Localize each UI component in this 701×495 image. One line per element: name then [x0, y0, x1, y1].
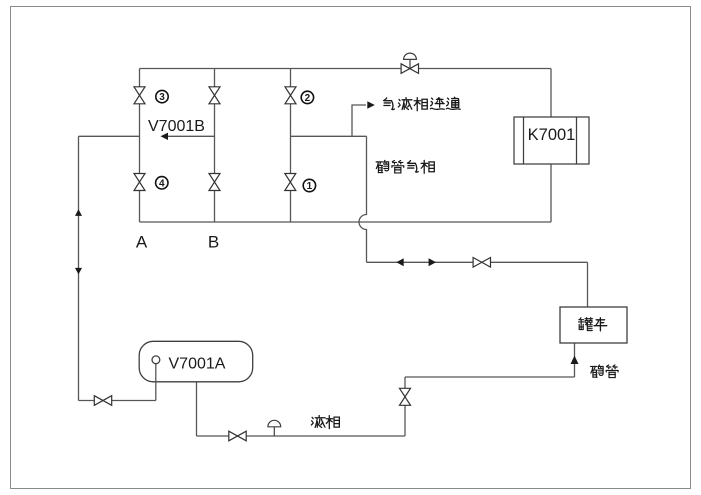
wire branch to gas-liquid arrow	[352, 105, 366, 136]
valve 2 on riser C	[285, 87, 296, 104]
arrow down trunk	[75, 268, 82, 275]
arrow right bidirectional	[429, 258, 436, 266]
svg-text:K7001: K7001	[528, 126, 576, 144]
control valve on top header	[401, 53, 418, 73]
svg-text:2: 2	[305, 93, 311, 104]
circled number 2	[301, 91, 313, 104]
valve on liquid line	[229, 431, 246, 441]
arrow left bidirectional	[396, 258, 403, 266]
svg-text:4: 4	[159, 178, 165, 189]
wire K7001 bottom drop x=551	[550, 164, 552, 222]
circled number 3	[156, 90, 168, 103]
label tank truck (Chinese)	[578, 318, 606, 331]
arrow up trunk	[75, 209, 82, 216]
label liquid phase (Chinese)	[311, 416, 339, 429]
wire trunk x=78.5	[78, 136, 80, 400]
wire liquid line y=435.5	[197, 435, 406, 437]
arrow up crane	[571, 356, 579, 364]
wire trunk bottom y=400.5	[79, 400, 156, 402]
wire riser B x=214.5	[214, 69, 216, 223]
svg-text:V7001B: V7001B	[148, 118, 205, 135]
svg-text:1: 1	[307, 181, 313, 192]
wire V7001A circle drop x=155.8	[155, 364, 157, 401]
valve on riser B top	[209, 87, 220, 104]
svg-text:A: A	[136, 232, 148, 251]
wire riser A x=139.5	[139, 69, 141, 223]
compressor K7001 box	[514, 117, 589, 164]
label gas-liquid connection (Chinese)	[384, 97, 461, 111]
svg-text:V7001A: V7001A	[169, 355, 226, 372]
valve on crane riser	[400, 388, 411, 405]
valve 4 on riser A	[134, 174, 145, 191]
V7001A nozzle circle	[152, 356, 160, 364]
wire hop riser x=366.5 with jump arc	[359, 136, 367, 262]
svg-text:3: 3	[159, 92, 165, 103]
wire valve riser x=405	[404, 377, 406, 436]
wire bidirectional line y=261.5	[367, 261, 588, 263]
wire K7001 top drop x=551	[550, 69, 552, 118]
wire tank top drop x=587.5	[587, 262, 589, 307]
wire top header y=68.5	[140, 68, 552, 70]
valve on riser B bottom	[209, 174, 220, 191]
wire riser C x=290.5	[290, 69, 292, 223]
wire trunk to A y=136.3	[79, 135, 140, 137]
label crane pipe gas phase (Chinese)	[376, 160, 434, 173]
wire bottom header y=222	[140, 221, 552, 223]
arrow right gas-liquid	[367, 101, 375, 108]
wire V7001B arrow line	[167, 135, 215, 137]
valve on trunk bottom line	[94, 396, 111, 406]
svg-text:B: B	[208, 232, 219, 251]
wire V7001A right drop x=196.5	[196, 382, 198, 436]
wire tank bottom riser x=574.5	[574, 343, 576, 377]
valve 3 on riser A	[134, 87, 145, 104]
wire C to hop riser y=136.3	[291, 135, 367, 137]
circled number 4	[156, 177, 168, 190]
circled number 1	[303, 179, 315, 192]
vessel V7001A rounded box	[139, 341, 253, 382]
instrument dome on liquid line	[268, 420, 281, 436]
valve 1 on riser C	[285, 174, 296, 191]
arrow left V7001B	[161, 133, 169, 140]
wire crane horizontal y=377	[405, 376, 575, 378]
label crane pipe (Chinese)	[591, 365, 618, 378]
valve on bidirectional line	[473, 258, 490, 268]
tank truck box	[560, 307, 627, 343]
